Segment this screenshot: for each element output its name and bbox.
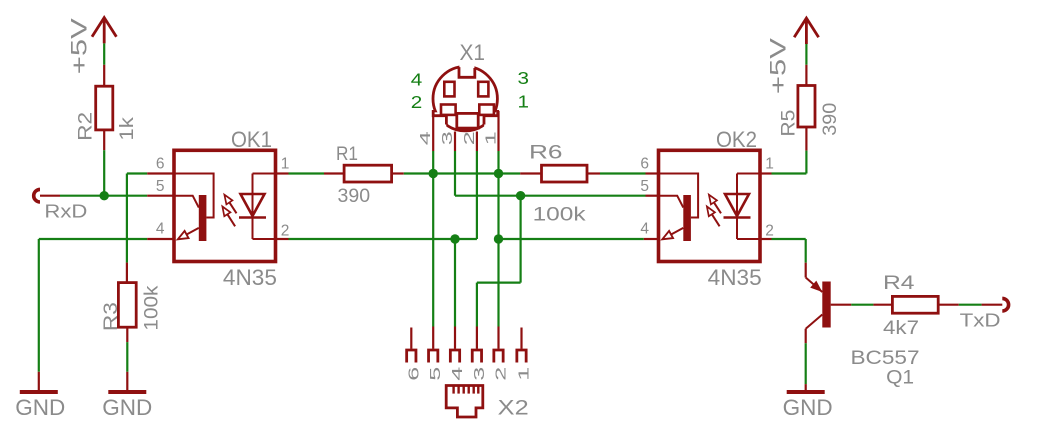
svg-text:R1: R1 <box>336 143 358 165</box>
svg-text:5: 5 <box>427 367 444 381</box>
X2 pin 4 <box>454 327 456 349</box>
wire OK1 pin4 to GND <box>39 238 147 240</box>
wire X1 pin3 down to OK2 pin5 row <box>454 151 456 196</box>
svg-text:1: 1 <box>281 155 290 172</box>
svg-text:1: 1 <box>483 131 500 145</box>
pad RxD <box>34 189 40 202</box>
svg-text:GND: GND <box>102 395 152 420</box>
svg-text:3: 3 <box>518 68 530 88</box>
resistor R3 <box>126 263 128 283</box>
svg-text:R4: R4 <box>883 272 915 294</box>
svg-text:4k7: 4k7 <box>883 317 919 339</box>
svg-text:1k: 1k <box>116 117 138 141</box>
X1 pin 1 stub <box>497 111 499 151</box>
OK1 emitter arrow <box>182 228 199 237</box>
junction RxD/R2 node <box>100 191 109 200</box>
svg-text:GND: GND <box>15 395 65 420</box>
OK2 emitter arrow <box>666 228 683 237</box>
X1 pin 3 stub <box>454 132 456 152</box>
svg-text:3: 3 <box>439 131 456 145</box>
svg-text:3: 3 <box>471 367 488 381</box>
X2 jack contacts <box>452 386 454 393</box>
resistor R6 <box>520 172 541 174</box>
svg-text:4N35: 4N35 <box>708 265 762 290</box>
wire X2 pin4 drop <box>454 239 456 327</box>
svg-text:TxD: TxD <box>960 310 1001 331</box>
OK1 internal LED <box>253 174 276 240</box>
X1 pin 4 stub <box>432 111 434 151</box>
svg-text:OK2: OK2 <box>716 127 757 152</box>
svg-text:1: 1 <box>518 91 530 111</box>
OK1 pin6 stub <box>147 172 174 174</box>
wire junction under R6 down-jog to X2 pin3 <box>519 196 521 283</box>
svg-text:R3: R3 <box>100 302 122 331</box>
OK2 pin2 stub <box>759 238 772 240</box>
wire +5V to R5 <box>805 44 807 65</box>
svg-text:2: 2 <box>411 92 423 112</box>
svg-text:4N35: 4N35 <box>223 265 277 290</box>
pad TxD <box>1002 298 1008 311</box>
Q1 base stub <box>831 304 852 306</box>
junction X1 pin1 / OK2 pin4 row <box>494 234 503 243</box>
svg-text:6: 6 <box>640 155 649 172</box>
X1 contact holes <box>444 82 454 97</box>
X2 pin 3 <box>476 327 478 349</box>
svg-text:1: 1 <box>765 155 774 172</box>
opto-isolator OK2 body box <box>659 150 761 261</box>
connector X2 jack outline <box>446 386 483 418</box>
svg-text:Q1: Q1 <box>886 366 914 388</box>
svg-text:GND: GND <box>783 395 833 420</box>
transistor Q1 BC557 <box>805 263 807 278</box>
X1 key slot <box>457 113 478 128</box>
svg-text:2: 2 <box>461 131 478 145</box>
junction at X1 pin4 column <box>429 169 438 178</box>
svg-text:+5V: +5V <box>66 18 91 74</box>
ground GND (far left) <box>38 372 40 390</box>
OK1 internal photo-transistor <box>174 174 214 218</box>
OK1 light arrows <box>227 199 236 213</box>
svg-text:2: 2 <box>765 223 774 240</box>
junction at X1 pin1 column <box>494 169 503 178</box>
OK2 pin5 stub <box>646 195 659 197</box>
junction under R6 <box>516 191 525 200</box>
wire R5 to OK2 pin1 <box>805 151 807 174</box>
svg-text:100k: 100k <box>140 285 162 330</box>
wire R4 to TxD <box>959 304 982 306</box>
svg-text:6: 6 <box>405 367 422 381</box>
svg-text:100k: 100k <box>533 204 586 226</box>
svg-text:R2: R2 <box>75 112 97 141</box>
X2 pin 5 <box>432 327 434 349</box>
OK1 pin1 stub <box>276 172 289 174</box>
wire R1 to R6 <box>404 172 520 174</box>
wire R2 to RxD node <box>103 150 105 196</box>
svg-text:4: 4 <box>640 221 649 238</box>
svg-text:6: 6 <box>156 155 165 172</box>
wire RxD to OK1 pin5 <box>60 195 147 197</box>
resistor R5 <box>805 65 807 86</box>
OK2 internal LED <box>737 174 760 240</box>
OK1 pin5 stub <box>147 195 174 197</box>
wire OK1 pin1 to R1 <box>289 172 325 174</box>
resistor R1 <box>324 172 344 174</box>
svg-text:4: 4 <box>411 70 423 90</box>
opto-isolator OK1 body box <box>174 150 276 261</box>
svg-text:390: 390 <box>338 185 371 207</box>
wire X1 pin2 down to OK1 pin2 row <box>476 151 478 239</box>
X2 pin 2 <box>497 327 499 349</box>
svg-text:OK1: OK1 <box>231 127 272 152</box>
resistor R2 <box>103 65 105 86</box>
svg-text:R5: R5 <box>777 109 799 136</box>
svg-text:4: 4 <box>417 131 434 145</box>
svg-text:5: 5 <box>640 178 649 195</box>
X2 pin 1 <box>520 328 522 349</box>
svg-text:2: 2 <box>493 367 510 381</box>
wire OK1 pin2 row <box>289 238 477 240</box>
X1 pin 2 stub <box>476 132 478 152</box>
svg-text:5: 5 <box>156 178 165 195</box>
X2 pin 6 <box>410 328 412 349</box>
svg-text:R6: R6 <box>529 142 563 164</box>
OK2 pin1 stub <box>759 172 772 174</box>
svg-text:+5V: +5V <box>766 38 791 94</box>
resistor R4 <box>873 304 892 306</box>
ground GND (under R3) <box>126 372 128 390</box>
svg-text:390: 390 <box>819 103 841 136</box>
svg-text:X1: X1 <box>460 40 486 65</box>
svg-text:X2: X2 <box>498 396 529 420</box>
wire X1 pin4 down to X2 pin5 <box>432 151 434 327</box>
OK2 internal photo-transistor <box>659 174 699 218</box>
svg-text:1: 1 <box>516 367 533 381</box>
OK1 pin2 stub <box>276 238 289 240</box>
OK2 pin6 stub <box>646 172 659 174</box>
svg-text:2: 2 <box>281 223 290 240</box>
wire OK2 pin2 to Q1 emitter <box>772 238 806 240</box>
wire R6 to OK2 pin6 <box>600 172 646 174</box>
+5V supply symbol (right) <box>794 18 818 44</box>
wire R3 to GND <box>126 342 128 372</box>
OK2 pin4 stub <box>644 238 659 240</box>
wire to OK2 pin4 <box>499 238 644 240</box>
svg-text:4: 4 <box>156 221 165 238</box>
Q1 collector to GND <box>805 329 807 344</box>
junction to X2 pin4 <box>450 234 459 243</box>
wire OK1 pin6 to R3 <box>127 172 147 174</box>
svg-text:4: 4 <box>449 367 466 381</box>
+5V supply symbol (left) <box>92 18 116 44</box>
connector X1 mini-DIN outline <box>433 67 497 131</box>
wire Q1 base to R4 <box>851 304 873 306</box>
ground GND (right) <box>805 384 807 390</box>
OK2 light arrows <box>712 199 721 213</box>
svg-text:RxD: RxD <box>44 201 87 222</box>
wire X1 pin1 down to X2 pin2 <box>497 151 499 327</box>
OK1 pin4 stub <box>147 238 174 240</box>
wire +5V to R2 <box>103 43 105 64</box>
